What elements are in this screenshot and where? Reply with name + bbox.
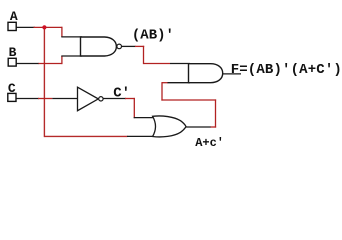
junction dot on A net bbox=[42, 25, 46, 29]
AND gate U4 (output F) body bbox=[189, 64, 223, 83]
wire: A pad to junction (black) bbox=[17, 26, 36, 28]
wire: elbow up to NAND input 2 (red) bbox=[61, 56, 63, 64]
wire: A branch corner to OR input 2 (red) bbox=[44, 135, 127, 137]
wire: AND input 2 (black) bbox=[168, 82, 191, 84]
svg-text:A: A bbox=[10, 9, 18, 24]
wire: A branch down x=44.4 (red) bbox=[43, 27, 45, 137]
OR gate U3 (inputs C', A) body bbox=[153, 116, 186, 137]
wire: red run to AND input 1 bbox=[144, 63, 171, 65]
NOT gate U2 (inverter, input C) body bbox=[78, 87, 99, 111]
wire: B continues (red) bbox=[39, 63, 63, 65]
wire: NAND output (black) bbox=[122, 45, 136, 47]
input pad C bbox=[8, 93, 16, 101]
NOT gate U2 output bubble bbox=[99, 97, 103, 101]
wire: OR output (black) bbox=[186, 126, 212, 128]
wire: NAND output continues (red) bbox=[135, 45, 144, 47]
wire: NAND input 1 (black) bbox=[61, 36, 82, 38]
NAND gate U1 (inputs A,B) body bbox=[81, 37, 117, 56]
svg-text:B: B bbox=[9, 45, 17, 60]
wire: red rise x=215.5 bbox=[215, 99, 217, 127]
wire: red drop to AND level x=143.5 bbox=[143, 46, 145, 64]
wire: B pad rightward (black) bbox=[16, 63, 39, 65]
svg-text:F=(AB)'(A+C'): F=(AB)'(A+C') bbox=[231, 62, 342, 78]
svg-text:A+c': A+c' bbox=[195, 136, 224, 150]
wire: elbow down to NAND input 1 (red) bbox=[61, 27, 63, 37]
NAND gate U1 output bubble bbox=[117, 44, 122, 49]
wire: red run left at y=100 bbox=[161, 99, 216, 101]
wire: NAND input 2 (black) bbox=[61, 55, 82, 57]
input pad A bbox=[8, 22, 16, 30]
wire: C pad rightward (black) bbox=[17, 98, 40, 100]
wire: red rise x=162 to AND input 2 bbox=[161, 82, 163, 101]
wire: OR output continues (red) bbox=[211, 126, 217, 128]
wire: OR input 1 (black) bbox=[134, 117, 156, 119]
svg-text:C: C bbox=[8, 81, 16, 96]
wire: AND output (black) bbox=[223, 73, 242, 75]
wire: A junction to NAND elbow (red) bbox=[34, 26, 63, 28]
input pad B bbox=[8, 58, 16, 66]
wire: red stub to AND input 2 bbox=[162, 82, 168, 84]
wire: NOT output (black) bbox=[103, 98, 126, 100]
svg-text:(AB)': (AB)' bbox=[132, 28, 174, 44]
svg-text:C': C' bbox=[113, 85, 130, 101]
wire: OR input 2 (black) bbox=[127, 135, 154, 137]
wire: AND input 1 (black) bbox=[170, 63, 190, 65]
wire: C into NOT gate (black) bbox=[52, 98, 78, 100]
wire: red drop to OR input 1 x=134.3 bbox=[133, 98, 135, 118]
wire: C crossing segment (red) bbox=[38, 98, 52, 100]
wire: NOT output continues (red) bbox=[125, 98, 135, 100]
